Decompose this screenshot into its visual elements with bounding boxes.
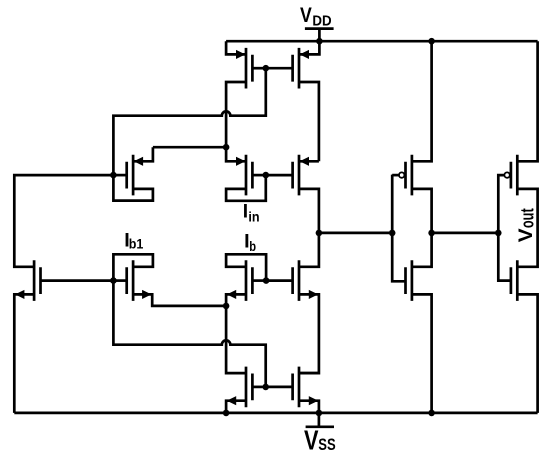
wire M15 top lead [299,372,319,375]
wire left node to ML drain [14,175,113,267]
wire M12 source to VDD rail [517,41,537,161]
transistor M2 body [246,48,252,89]
wire ML gate lead to mirror node [41,279,114,282]
transistor M3 body [127,155,133,196]
wire M2 drain down to node X [226,82,246,147]
transistor M8 body [246,260,252,301]
arrow M8 source (NMOS) [228,290,236,298]
arrow M4 source (PMOS) [300,50,308,58]
wire M9 source down to M15 drain [299,294,319,373]
transistor ML body [34,260,40,301]
node X junction (M2 drain / M3 / M5) [223,144,230,151]
wire M6 source lead [299,160,319,163]
wire M4 drain down to M6 source [299,82,319,161]
wire node A to M10/M11 gates [319,232,392,235]
wire M6 drain down to node A [299,189,319,233]
transistor M10 body [406,155,412,196]
wire VDD rail [226,40,537,43]
svg-text:SS: SS [318,436,336,454]
VSS symbol stub and bar [306,413,334,427]
wire M8 drain bracket to gate node [226,254,266,280]
wire M11 source to VSS rail [412,294,432,413]
wire M10 gate riser [391,175,394,233]
transistor M14 body [246,367,252,408]
transistor M4 body [293,48,299,89]
arrow M9 source (NMOS) [309,290,317,298]
node VDD stub junction [316,38,323,45]
svg-text:b: b [249,239,256,254]
node M2-M4 gate junction [263,65,270,72]
node VSS rail junction at M14 [223,410,230,417]
wire M12 drain to M13 drain [517,189,537,267]
wire M9 drain up to node A [299,233,319,267]
transistor M7 body [127,260,133,301]
arrow M3 source (PMOS) [134,157,142,165]
node M3 gate junction [110,172,117,179]
VDD symbol bar and stub [305,29,334,42]
svg-text:b1: b1 [129,237,144,252]
arrow M7 source (NMOS) [142,290,150,298]
wire M3 top lead up to node X wire [133,147,153,161]
wire M5 drain diode loop to gate [226,175,266,201]
wire M11 drain up to node B [412,233,432,267]
transistor M15 body [293,367,299,408]
node VSS rail junction at M11 [428,410,435,417]
node A junction at cascode [316,230,323,237]
arrow M5 source (PMOS) [236,157,244,165]
arrow M15 source (NMOS) [309,397,317,405]
wire M2 source lead to VDD rail [226,41,246,54]
wire M7 gate lead [113,279,126,282]
wire M2/M4 gates down-left with hop to left node [113,68,265,175]
wire M2 gate lead [252,67,265,70]
transistor M11 body [406,260,412,301]
wire M3 gate lead [113,174,126,177]
wire M7 drain bracket to gate node [113,254,152,280]
wire mirror gate with hop to M14/M15 gates [113,281,265,387]
transistor M6 body [293,155,299,196]
wire M11 gate riser [392,233,405,281]
svg-text:I: I [243,202,248,223]
bubble M12 gate (PMOS) [504,172,509,177]
wire M10 source to VDD rail [412,41,432,161]
wire M8 source down to node [226,294,246,306]
transistor M5 body [246,155,252,196]
wire M5 gate lead [252,174,265,177]
node VDD rail junction at M10 [428,38,435,45]
wire M7 source to M14 drain node [133,294,226,306]
wire M13 source to VSS rail [517,294,537,413]
node M5-M6 gate junction [263,172,270,179]
wire M12 gate lead and riser [498,175,504,233]
wire M8 gate lead [252,279,266,282]
svg-text:V: V [515,228,537,242]
node VSS rail junction at stub [316,410,323,417]
arrow ML source (NMOS) [16,290,24,298]
transistor M12 body [511,155,517,196]
node M14-M15 gate junction [262,384,269,391]
wire VSS rail [14,412,537,415]
wire M3 drain diode loop to gate [113,175,152,201]
svg-text:in: in [248,210,259,226]
svg-text:DD: DD [312,13,331,29]
node A gate junction [389,230,396,237]
wire node B to output stage gates [432,232,499,235]
node M8-M9 gate junction [263,277,270,284]
arrow M6 source (PMOS) [300,157,308,165]
wire M10 gate lead [392,174,399,177]
transistor M13 body [511,260,517,301]
bubble M10 gate (PMOS) [399,172,404,177]
wire M15 source to VSS rail [299,401,319,413]
node ML-M7 gate junction [110,277,117,284]
svg-text:V: V [300,2,312,27]
wire M14 source to VSS rail [226,401,246,413]
wire node X down to M5 source [226,147,246,161]
wire M4 gate lead [266,67,293,70]
node M7-M8 source junction [223,303,230,310]
wire M14 gate lead [252,386,265,389]
wire M15 gate lead [266,386,293,389]
node B gate junction [495,230,502,237]
wire node down to M14 drain [226,306,246,373]
wire M10 drain to node B [412,189,432,233]
arrow M14 source (NMOS) [228,397,236,405]
wire M13 gate lead and riser [498,233,511,281]
transistor M9 body [293,260,299,301]
wire M4 source lead to VDD rail [299,41,319,54]
wire ML source lead to VSS rail [14,294,34,413]
arrow M2 source (PMOS) [236,50,244,58]
wire M9 gate lead [266,279,293,282]
svg-text:out: out [518,208,538,228]
wire M6 gate lead [266,174,293,177]
svg-text:V: V [304,425,319,456]
wire node X to M3 top lead [153,146,226,149]
node B drain junction [428,230,435,237]
